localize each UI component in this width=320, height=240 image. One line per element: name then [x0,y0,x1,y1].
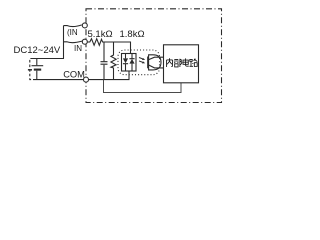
resistor R2 1.8k vertical zigzag with leads [111,42,116,80]
wire: return path under opto to internal circuit [104,80,182,93]
phototransistor Q1 envelope [149,55,161,70]
wire: top horizontal under DC label [33,58,64,60]
light arrow 1 [139,58,143,60]
optocoupler PC1 dotted outline [118,50,160,75]
battery BT1 dashed bypass lead [30,59,33,80]
LED bridge box [122,54,137,72]
char 内 [167,58,173,67]
svg-text:DC12~24V: DC12~24V [14,45,61,56]
battery BT1 short plate [34,69,41,71]
char 部 [174,59,182,67]
wire: left vertical riser [63,26,65,59]
node: lower IN terminal circle [82,39,87,44]
phototransistor Q1 base bar [147,57,149,69]
enclosure dash-dot boundary box [86,9,222,103]
battery BT1 long plate [32,65,44,67]
diode D1 bar and lead [123,64,128,71]
svg-text:(IN: (IN [67,28,78,37]
char 路 [190,59,198,67]
diode D2 triangle [129,59,134,64]
wire: arc to lower IN terminal [64,41,83,43]
wire: bottom horizontal to COM terminal [33,79,83,81]
capacitor C1 plates [101,62,108,64]
wire: arc to upper IN terminal [64,25,82,27]
wire: COM rail right of terminal [89,79,130,81]
battery BT1 top lead [36,59,38,66]
node: upper IN terminal circle [82,23,87,28]
label 内部电路 (drawn strokes) [167,58,198,67]
diode D1 (down) lead [125,54,127,59]
battery BT1 dash tick [28,69,32,71]
phototransistor Q1 emitter wire [148,65,163,68]
char 电 [183,58,189,66]
capacitor C1 top lead [103,42,105,61]
phototransistor Q1 collector wire [148,57,163,60]
wire: top rail to opto [104,42,131,54]
battery BT1 bottom lead [36,71,38,80]
resistor R1 5.1k zigzag [87,39,104,46]
node: COM terminal circle [84,77,89,82]
wire: LED box bottom to COM rail [128,71,130,80]
diode D2 bottom lead [131,64,133,71]
internal circuit box [164,45,199,83]
svg-text:1.8kΩ: 1.8kΩ [120,29,145,40]
light arrow 2 [139,61,143,63]
diode D1 triangle [123,58,128,63]
svg-text:COM: COM [63,70,85,80]
svg-text:IN: IN [74,44,82,53]
diode D2 (up) lead and bar [129,54,134,59]
capacitor C1 bottom lead [103,65,105,80]
